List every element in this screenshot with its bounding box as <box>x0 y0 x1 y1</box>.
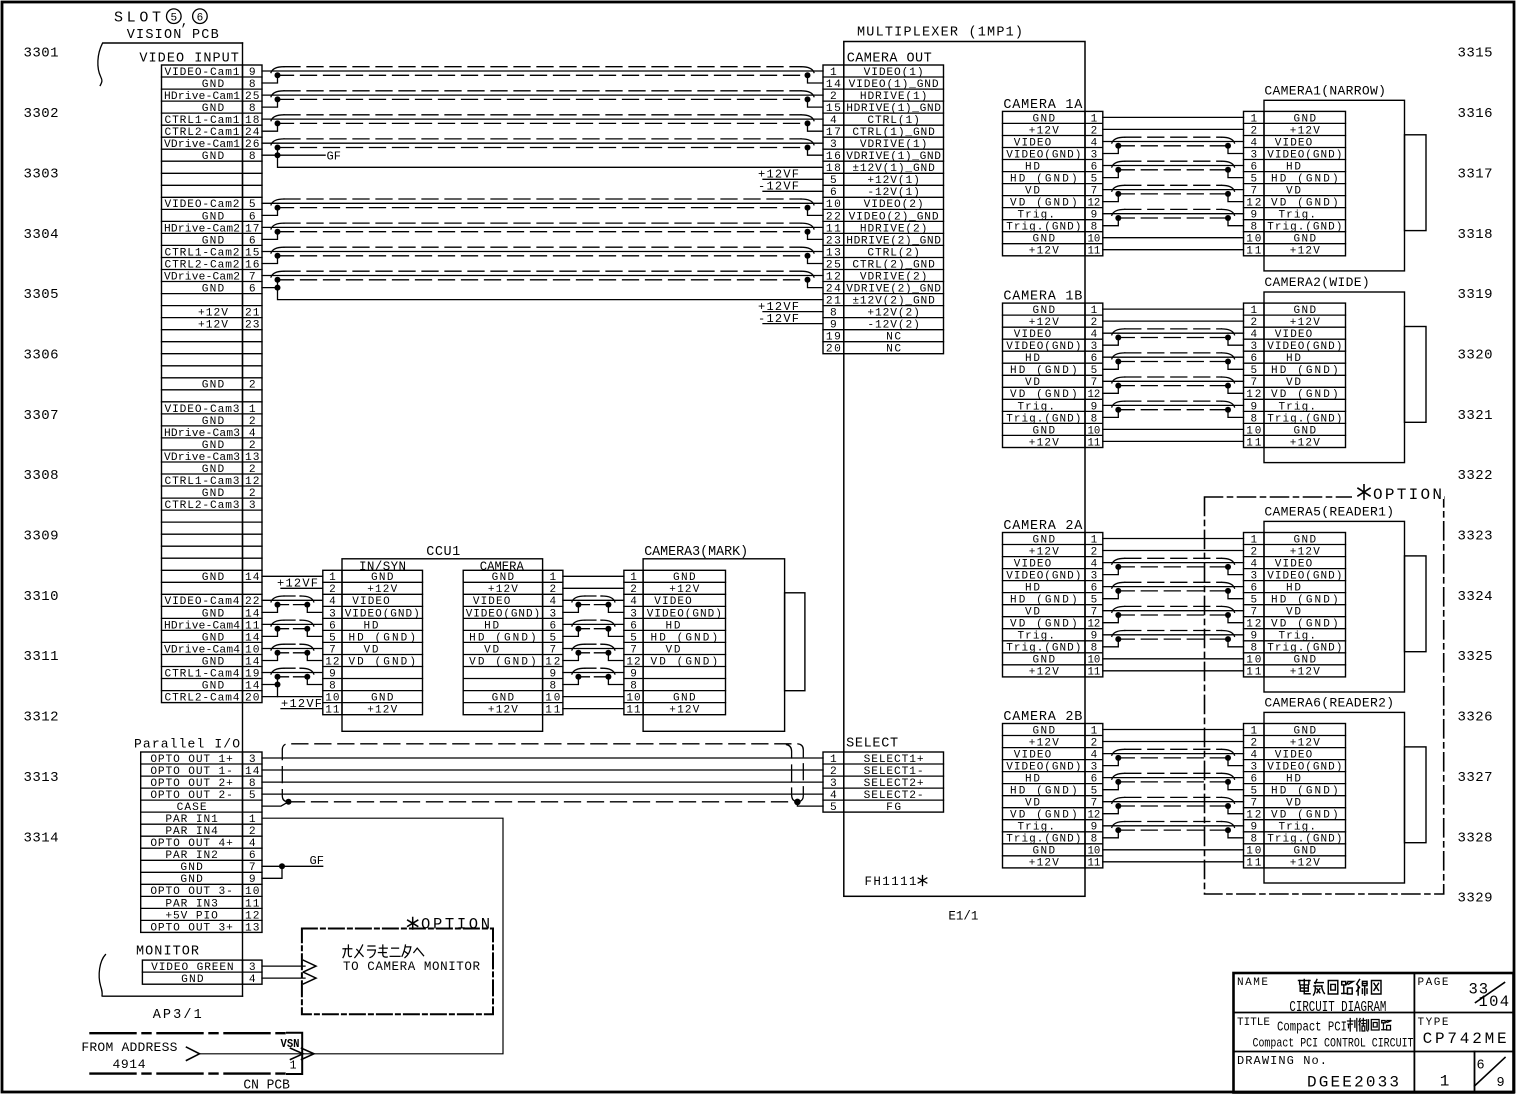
svg-text:HDrive-Cam3: HDrive-Cam3 <box>164 428 240 440</box>
svg-text:1: 1 <box>1250 725 1257 737</box>
svg-text:17: 17 <box>245 223 260 235</box>
svg-text:14: 14 <box>826 79 841 91</box>
svg-text:9: 9 <box>1497 1076 1505 1091</box>
sheet 6/9 <box>1475 1058 1506 1092</box>
svg-text:13: 13 <box>245 452 260 464</box>
svg-text:3: 3 <box>249 962 256 974</box>
svg-text:CAMERA 1A: CAMERA 1A <box>1003 98 1083 113</box>
svg-text:25: 25 <box>826 259 841 271</box>
svg-text:OPTO OUT 1-: OPTO OUT 1- <box>150 766 233 778</box>
svg-text:11: 11 <box>1088 667 1101 679</box>
svg-text:Trig.: Trig. <box>1278 210 1316 222</box>
svg-text:12: 12 <box>1246 389 1261 401</box>
svg-text:5: 5 <box>1091 365 1098 377</box>
wire CASE to cable shield <box>262 802 289 806</box>
svg-text:12: 12 <box>1246 619 1261 631</box>
svg-text:9: 9 <box>830 320 837 332</box>
svg-text:CAMERA5(READER1): CAMERA5(READER1) <box>1264 505 1394 520</box>
svg-text:3: 3 <box>830 139 837 151</box>
net label +12VF at mux pin 8 <box>758 300 823 314</box>
shielded pair CAMERA 2A HD <box>1103 582 1244 598</box>
svg-text:4: 4 <box>249 428 256 440</box>
svg-text:6: 6 <box>329 620 336 632</box>
wire VIDEO GREEN arrow to monitor <box>262 960 316 972</box>
svg-text:PAR IN1: PAR IN1 <box>165 814 218 826</box>
svg-text:1: 1 <box>329 572 336 584</box>
net label -12VF at mux pin 6 <box>758 180 823 194</box>
svg-text:CCU1: CCU1 <box>426 545 460 560</box>
svg-text:Trig.(GND): Trig.(GND) <box>1267 643 1342 655</box>
svg-text:Trig.(GND): Trig.(GND) <box>1267 413 1342 425</box>
shielded pair wire HDrive-Cam2 / HDRIVE(2) <box>262 223 823 239</box>
svg-text:VD: VD <box>1286 607 1301 619</box>
svg-text:GND: GND <box>1294 846 1317 858</box>
svg-text:10: 10 <box>245 644 260 656</box>
wire +12V pin2 CAMERA 1B to camera <box>1103 320 1244 322</box>
svg-text:GND: GND <box>202 572 225 584</box>
svg-text:3: 3 <box>1250 762 1257 774</box>
svg-text:11: 11 <box>1246 858 1261 870</box>
svg-text:12: 12 <box>1246 810 1261 822</box>
svg-text:VD: VD <box>1025 798 1040 810</box>
svg-text:11: 11 <box>1246 437 1261 449</box>
svg-text:GND: GND <box>673 693 696 705</box>
svg-text:HDRIVE(2): HDRIVE(2) <box>860 223 928 235</box>
svg-text:+12V(2): +12V(2) <box>867 308 920 320</box>
svg-text:GND: GND <box>1033 725 1056 737</box>
svg-text:5: 5 <box>1091 595 1098 607</box>
svg-text:5: 5 <box>249 199 256 211</box>
svg-text:CAMERA3(MARK): CAMERA3(MARK) <box>644 545 748 560</box>
svg-text:CTRL2-Cam1: CTRL2-Cam1 <box>165 127 240 139</box>
svg-text:3: 3 <box>1091 149 1098 161</box>
signal-source chevron <box>187 1047 200 1060</box>
svg-text:NC: NC <box>886 344 901 356</box>
svg-text:HD: HD <box>666 620 681 632</box>
svg-text:+12V: +12V <box>1029 437 1059 449</box>
svg-text:GND: GND <box>1294 425 1317 437</box>
svg-text:GND: GND <box>1294 725 1317 737</box>
svg-text:11: 11 <box>1246 246 1261 258</box>
svg-text:3313: 3313 <box>24 770 59 786</box>
wire GND pin10 CAMERA 2B to camera <box>1103 849 1244 851</box>
svg-text:13: 13 <box>245 922 260 934</box>
shielded pair CAMERA 1B VD <box>1103 377 1244 393</box>
shielded pair CAMERA 2B HD <box>1103 773 1244 789</box>
svg-text:4: 4 <box>630 596 637 608</box>
svg-text:VD: VD <box>484 644 499 656</box>
svg-text:VIDEO(1)_GND: VIDEO(1)_GND <box>849 79 939 91</box>
svg-text:GND: GND <box>202 488 225 500</box>
svg-text:MONITOR: MONITOR <box>136 945 199 960</box>
svg-text:CTRL2-Cam2: CTRL2-Cam2 <box>165 259 240 271</box>
shielded pair wire VDrive-Cam1 / VDRIVE(1) <box>262 139 823 155</box>
svg-text:Trig.(GND): Trig.(GND) <box>1006 222 1081 234</box>
svg-text:HDRIVE(2)_GND: HDRIVE(2)_GND <box>846 235 941 247</box>
svg-text:9: 9 <box>249 67 256 79</box>
svg-text:HD: HD <box>1025 583 1040 595</box>
svg-text:4: 4 <box>1091 750 1098 762</box>
svg-text:VISION PCB: VISION PCB <box>127 28 219 43</box>
svg-text:GND: GND <box>1294 305 1317 317</box>
svg-text:8: 8 <box>1091 643 1098 655</box>
svg-text:7: 7 <box>630 644 637 656</box>
connector CAMERA3(MARK) <box>624 570 726 716</box>
svg-text:6: 6 <box>830 187 837 199</box>
svg-text:14: 14 <box>245 608 260 620</box>
shielded pair wire CCU1-CAMERA3 VD <box>563 644 624 660</box>
svg-text:PAR IN3: PAR IN3 <box>165 898 218 910</box>
wire GND Cam4 to IN/SYN pin 1 <box>262 575 323 577</box>
svg-text:10: 10 <box>1088 425 1101 437</box>
svg-text:VDrive-Cam4: VDrive-Cam4 <box>164 644 240 656</box>
svg-text:12: 12 <box>325 656 339 668</box>
svg-text:+12V: +12V <box>1029 667 1059 679</box>
svg-text:+12V: +12V <box>1029 546 1059 558</box>
svg-text:SELECT2+: SELECT2+ <box>864 778 924 790</box>
svg-text:Compact PCI CONTROL CIRCUIT: Compact PCI CONTROL CIRCUIT <box>1253 1036 1414 1051</box>
svg-text:2: 2 <box>630 584 637 596</box>
svg-text:FG: FG <box>886 802 901 814</box>
svg-text:CN PCB: CN PCB <box>243 1079 290 1094</box>
shielded pair wire VIDEO-Cam2 / VIDEO(2) <box>262 199 823 215</box>
svg-text:HDrive-Cam4: HDrive-Cam4 <box>164 620 240 632</box>
svg-text:3311: 3311 <box>24 649 59 665</box>
svg-text:12: 12 <box>245 476 260 488</box>
svg-text:CTRL1-Cam4: CTRL1-Cam4 <box>165 668 240 680</box>
svg-text:VSN: VSN <box>281 1038 300 1051</box>
svg-text:3301: 3301 <box>24 46 59 62</box>
svg-text:3323: 3323 <box>1458 529 1493 545</box>
svg-text:OPTO OUT 2+: OPTO OUT 2+ <box>150 778 233 790</box>
wire +-12V(2)_GND from Cam2 ground to mux pin 21 <box>275 285 824 300</box>
svg-text:AP3/1: AP3/1 <box>153 1008 202 1023</box>
svg-text:7: 7 <box>1250 798 1257 810</box>
svg-text:7: 7 <box>1250 186 1257 198</box>
svg-text:OPTO OUT 1+: OPTO OUT 1+ <box>150 754 233 766</box>
left grid reference numbers 3301-3314 <box>24 46 59 847</box>
svg-text:GND: GND <box>371 693 394 705</box>
svg-text:15: 15 <box>245 247 260 259</box>
svg-text:VIDEO: VIDEO <box>1014 329 1052 341</box>
svg-text:VD: VD <box>1286 798 1301 810</box>
svg-text:+12V: +12V <box>669 705 699 717</box>
connector on camera CAMERA5(READER1) <box>1244 533 1346 679</box>
svg-text:2: 2 <box>329 584 336 596</box>
svg-text:SELECT2-: SELECT2- <box>864 790 924 802</box>
svg-text:1: 1 <box>1250 534 1257 546</box>
svg-text:VIDEO: VIDEO <box>1275 559 1313 571</box>
svg-text:6: 6 <box>630 620 637 632</box>
svg-text:3316: 3316 <box>1458 106 1493 122</box>
right grid reference numbers 3315-3329 <box>1458 46 1493 907</box>
multiplexer 1MP1 box outline <box>844 42 1085 897</box>
svg-text:VIDEO(GND): VIDEO(GND) <box>466 608 540 620</box>
monitor option box (dash-dot) <box>302 929 493 1015</box>
option area box (dash-dot) <box>1205 497 1444 894</box>
title block <box>1234 973 1514 1093</box>
svg-text:VD: VD <box>1025 607 1040 619</box>
svg-text:3: 3 <box>630 608 637 620</box>
title text Japanese 'circuit diagram' <box>1299 980 1382 996</box>
svg-text:23: 23 <box>245 320 260 332</box>
arrowheads into VSN <box>291 1048 315 1059</box>
svg-text:7: 7 <box>1091 798 1098 810</box>
svg-text:Compact PCI: Compact PCI <box>1277 1020 1347 1035</box>
svg-text:+12V: +12V <box>1290 667 1320 679</box>
connector on camera CAMERA6(READER2) <box>1244 724 1346 870</box>
svg-text:Trig.(GND): Trig.(GND) <box>1267 222 1342 234</box>
svg-text:12: 12 <box>626 656 640 668</box>
svg-text:GND: GND <box>1033 534 1056 546</box>
wire +12V pin2 CAMERA 2B to camera <box>1103 741 1244 743</box>
wire cable shield to FG <box>797 802 823 806</box>
svg-text:3322: 3322 <box>1458 468 1493 484</box>
svg-text:8: 8 <box>249 79 256 91</box>
shielded pair wire CTRL1-Cam2 / CTRL(2) <box>262 247 823 263</box>
svg-text:4: 4 <box>1250 559 1257 571</box>
title text Compact PCI control circuit (Japanese) <box>1277 1019 1392 1036</box>
svg-text:3324: 3324 <box>1458 589 1493 605</box>
svg-text:9: 9 <box>1250 631 1257 643</box>
svg-text:7: 7 <box>1250 377 1257 389</box>
svg-text:Trig.: Trig. <box>1278 401 1316 413</box>
camera body outline CAMERA6(READER2) <box>1264 712 1426 883</box>
VISION PCB board outline <box>103 43 243 996</box>
svg-text:9: 9 <box>1250 210 1257 222</box>
svg-text:3328: 3328 <box>1458 830 1493 846</box>
svg-text:TITLE: TITLE <box>1237 1017 1270 1029</box>
svg-text:2: 2 <box>549 584 556 596</box>
svg-text:104: 104 <box>1479 993 1510 1011</box>
svg-text:9: 9 <box>329 668 336 680</box>
svg-text:5: 5 <box>830 802 837 814</box>
connector Parallel I/O <box>141 752 262 934</box>
svg-text:3304: 3304 <box>24 227 59 243</box>
svg-text:HD: HD <box>484 620 499 632</box>
svg-text:4: 4 <box>329 596 336 608</box>
svg-text:1: 1 <box>290 1060 297 1073</box>
net label +12VF at IN/SYN pin 2 <box>277 577 323 591</box>
svg-text:8: 8 <box>249 778 256 790</box>
svg-text:GND: GND <box>180 862 203 874</box>
svg-text:-12V(2): -12V(2) <box>867 320 920 332</box>
shielded pair CAMERA 1A HD <box>1103 161 1244 177</box>
svg-text:VD: VD <box>666 644 681 656</box>
wire GND pin10 CAMERA 1A to camera <box>1103 237 1244 239</box>
connector on camera CAMERA2(WIDE) <box>1244 303 1346 449</box>
svg-text:Trig.: Trig. <box>1017 822 1055 834</box>
svg-text:4: 4 <box>1250 750 1257 762</box>
svg-text:18: 18 <box>245 115 260 127</box>
svg-text:10: 10 <box>626 693 640 705</box>
svg-text:4: 4 <box>1091 559 1098 571</box>
svg-text:9: 9 <box>1091 401 1098 413</box>
svg-text:3: 3 <box>1250 571 1257 583</box>
shielded pair CAMERA 1A Trig. <box>1103 209 1244 225</box>
svg-text:10: 10 <box>1088 234 1101 246</box>
wire GND pin10 CAMERA 2A to camera <box>1103 658 1244 660</box>
svg-text:VDrive-Cam3: VDrive-Cam3 <box>164 452 240 464</box>
svg-text:3326: 3326 <box>1458 710 1493 726</box>
svg-text:20: 20 <box>245 693 260 705</box>
wire OPTO OUT 2- to SELECT2- <box>262 793 823 795</box>
svg-text:Trig.(GND): Trig.(GND) <box>1006 834 1081 846</box>
connector CAMERA 2A (multiplexer) <box>1003 533 1103 679</box>
svg-text:CTRL(2): CTRL(2) <box>867 247 920 259</box>
svg-text:VD: VD <box>364 644 379 656</box>
svg-text:9: 9 <box>630 668 637 680</box>
svg-text:11: 11 <box>626 705 641 717</box>
svg-text:PAR IN4: PAR IN4 <box>165 826 218 838</box>
svg-text:CAMERA6(READER2): CAMERA6(READER2) <box>1264 696 1394 711</box>
label *OPTION (readers) <box>1358 485 1442 504</box>
svg-text:3318: 3318 <box>1458 227 1493 243</box>
svg-text:6: 6 <box>549 620 556 632</box>
svg-text:GND: GND <box>1294 113 1317 125</box>
svg-text:7: 7 <box>1091 607 1098 619</box>
svg-text:2: 2 <box>249 464 256 476</box>
wire GND pin1 CAMERA 1B to camera <box>1103 308 1244 310</box>
svg-text:7: 7 <box>1091 186 1098 198</box>
svg-text:HD: HD <box>1286 583 1301 595</box>
connector MONITOR <box>142 960 262 986</box>
net label +12VF at IN/SYN pin 11 <box>281 697 323 711</box>
svg-text:22: 22 <box>245 596 260 608</box>
svg-text:HD: HD <box>1286 774 1301 786</box>
svg-text:5: 5 <box>329 632 336 644</box>
svg-text:VIDEO(GND): VIDEO(GND) <box>647 608 722 620</box>
svg-text:+12V: +12V <box>1029 317 1059 329</box>
page number 33/104 <box>1469 981 1510 1011</box>
svg-text:5: 5 <box>1250 595 1257 607</box>
svg-text:5: 5 <box>249 790 256 802</box>
svg-text:9: 9 <box>1250 822 1257 834</box>
shielded pair wire CTRL1-Cam1 / CTRL(1) <box>262 115 823 131</box>
svg-text:VD: VD <box>1286 377 1301 389</box>
svg-text:4: 4 <box>1250 137 1257 149</box>
svg-text:15: 15 <box>826 103 841 115</box>
svg-text:11: 11 <box>826 223 841 235</box>
svg-text:2: 2 <box>249 380 256 392</box>
svg-text:CAMERA2(WIDE): CAMERA2(WIDE) <box>1264 275 1369 290</box>
svg-text:CTRL1-Cam3: CTRL1-Cam3 <box>165 476 240 488</box>
svg-text:HD: HD <box>364 620 379 632</box>
svg-text:HDrive-Cam1: HDrive-Cam1 <box>164 91 240 103</box>
shielded pair CAMERA 2B VIDEO <box>1103 749 1244 765</box>
svg-text:+5V PIO: +5V PIO <box>165 910 218 922</box>
svg-text:+12V: +12V <box>1029 737 1059 749</box>
svg-text:-12V(1): -12V(1) <box>867 187 920 199</box>
svg-text:6: 6 <box>249 211 256 223</box>
svg-text:8: 8 <box>1091 222 1098 234</box>
camera body outline CAMERA2(WIDE) <box>1264 292 1426 463</box>
svg-text:VIDEO-Cam4: VIDEO-Cam4 <box>165 596 240 608</box>
svg-text:VIDEO(GND): VIDEO(GND) <box>345 608 420 620</box>
svg-text:8: 8 <box>1250 834 1257 846</box>
svg-text:3321: 3321 <box>1458 408 1493 424</box>
svg-text:VIDEO: VIDEO <box>473 596 511 608</box>
svg-text:10: 10 <box>1246 655 1261 667</box>
svg-text:VIDEO(GND): VIDEO(GND) <box>1267 149 1342 161</box>
svg-text:+12V: +12V <box>198 320 228 332</box>
svg-text:10: 10 <box>1088 846 1101 858</box>
wire OPTO OUT 1+ to SELECT1+ <box>262 757 823 759</box>
svg-text:8: 8 <box>630 680 637 692</box>
svg-text:HDrive-Cam2: HDrive-Cam2 <box>164 223 240 235</box>
svg-text:FROM ADDRESS: FROM ADDRESS <box>81 1040 177 1055</box>
svg-text:VIDEO: VIDEO <box>1014 137 1052 149</box>
svg-text:2: 2 <box>1091 125 1098 137</box>
svg-text:11: 11 <box>245 620 260 632</box>
svg-text:11: 11 <box>545 705 560 717</box>
wire GF tap from Parallel I/O GND 7/9 <box>262 863 323 878</box>
svg-text:6: 6 <box>249 235 256 247</box>
svg-text:NAME: NAME <box>1237 977 1268 989</box>
label kana 'to camera monitor' (Japanese) <box>343 945 424 958</box>
svg-text:OPTO OUT 2-: OPTO OUT 2- <box>150 790 233 802</box>
svg-text:2: 2 <box>249 826 256 838</box>
svg-text:8: 8 <box>249 151 256 163</box>
svg-text:10: 10 <box>826 199 841 211</box>
svg-text:VIDEO(GND): VIDEO(GND) <box>1006 149 1081 161</box>
svg-text:CAMERA OUT: CAMERA OUT <box>847 51 932 66</box>
svg-text:2: 2 <box>249 488 256 500</box>
svg-text:9: 9 <box>1091 631 1098 643</box>
svg-text:6: 6 <box>1091 161 1098 173</box>
svg-text:2: 2 <box>830 91 837 103</box>
shielded pair CAMERA 1B HD <box>1103 353 1244 369</box>
svg-text:8: 8 <box>1091 834 1098 846</box>
shielded pair wire CTRL1-Cam4 / pin9 <box>262 668 323 684</box>
connector CAMERA 1A (multiplexer) <box>1003 111 1103 257</box>
svg-text:+12V: +12V <box>1290 546 1320 558</box>
svg-text:18: 18 <box>826 163 841 175</box>
wire +12V pin2 CAMERA 2A to camera <box>1103 550 1244 552</box>
svg-text:VIDEO: VIDEO <box>1275 750 1313 762</box>
svg-text:+12V: +12V <box>488 584 518 596</box>
svg-text:+12V: +12V <box>1290 125 1320 137</box>
svg-text:VDrive-Cam1: VDrive-Cam1 <box>164 139 240 151</box>
connector CAMERA OUT (multiplexer) <box>823 65 944 356</box>
svg-text:GND: GND <box>371 572 394 584</box>
shielded pair wire CCU1-CAMERA3 pin9 <box>563 668 624 684</box>
cable squiggle bottom <box>99 955 105 997</box>
svg-text:VIDEO(2): VIDEO(2) <box>864 199 924 211</box>
net label +12VF at mux pin 5 <box>758 168 823 182</box>
svg-text:GND: GND <box>180 874 203 886</box>
svg-text:OPTO OUT 3+: OPTO OUT 3+ <box>150 922 233 934</box>
svg-text:5: 5 <box>1091 174 1098 186</box>
svg-text:8: 8 <box>329 680 336 692</box>
svg-text:Trig.: Trig. <box>1278 631 1316 643</box>
svg-text:GND: GND <box>492 693 515 705</box>
wire +12V pin2 CAMERA 1A to camera <box>1103 128 1244 130</box>
wire PAR IN1 to VSN net <box>200 818 503 1054</box>
svg-text:10: 10 <box>1088 655 1101 667</box>
svg-text:VIDEO: VIDEO <box>1275 137 1313 149</box>
wire CTRL2-Cam4 to IN/SYN pin 10 <box>262 682 323 697</box>
svg-text:GND: GND <box>1033 655 1056 667</box>
svg-text:2: 2 <box>1250 546 1257 558</box>
svg-text:MULTIPLEXER (1MP1): MULTIPLEXER (1MP1) <box>857 25 1023 40</box>
svg-text:VIDEO: VIDEO <box>1014 750 1052 762</box>
svg-text:+12V: +12V <box>1029 246 1059 258</box>
svg-text:24: 24 <box>245 127 260 139</box>
svg-text:GND: GND <box>202 416 225 428</box>
label SLOT 5,6 <box>114 9 207 29</box>
svg-text:3: 3 <box>1091 341 1098 353</box>
